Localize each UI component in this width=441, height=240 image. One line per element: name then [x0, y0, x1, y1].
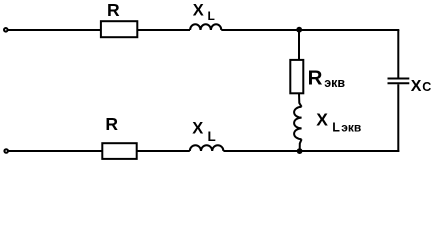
svg-text:R: R	[105, 114, 118, 134]
wire	[137, 150, 190, 152]
svg-text:X: X	[193, 1, 204, 19]
inductor XL (bottom)	[190, 145, 224, 151]
terminal (bottom-left input)	[4, 149, 8, 153]
svg-text:экв: экв	[341, 121, 361, 135]
wire	[8, 150, 102, 152]
node A (top junction)	[296, 27, 302, 33]
svg-text:экв: экв	[324, 76, 345, 90]
wire	[221, 29, 399, 31]
svg-text:X: X	[316, 109, 328, 129]
svg-text:X: X	[192, 119, 203, 137]
inductor XLekv (vertical)	[294, 107, 302, 139]
wire	[8, 29, 101, 31]
wire	[223, 150, 399, 152]
terminal (top-left input)	[4, 28, 8, 32]
wire (XLekv to bottom junction)	[300, 139, 302, 151]
wire (right vertical, above capacitor)	[397, 30, 399, 78]
node B (bottom junction)	[297, 148, 303, 154]
resistor R (bottom)	[102, 143, 136, 159]
svg-text:R: R	[308, 66, 323, 89]
capacitor XC plates	[388, 78, 410, 80]
svg-text:L: L	[332, 121, 340, 135]
svg-text:L: L	[208, 129, 216, 144]
svg-text:R: R	[107, 0, 120, 20]
resistor Rekv	[290, 60, 303, 93]
wire (middle branch, junction to Rekv)	[298, 30, 300, 59]
wire	[137, 29, 190, 31]
inductor XL (top)	[190, 24, 221, 30]
svg-text:X: X	[411, 78, 422, 95]
svg-text:C: C	[422, 80, 431, 94]
svg-text:L: L	[208, 9, 215, 23]
wire (Rekv to XLekv)	[299, 93, 302, 107]
wire (right vertical, below capacitor)	[397, 84, 399, 152]
resistor R (top)	[101, 21, 137, 37]
